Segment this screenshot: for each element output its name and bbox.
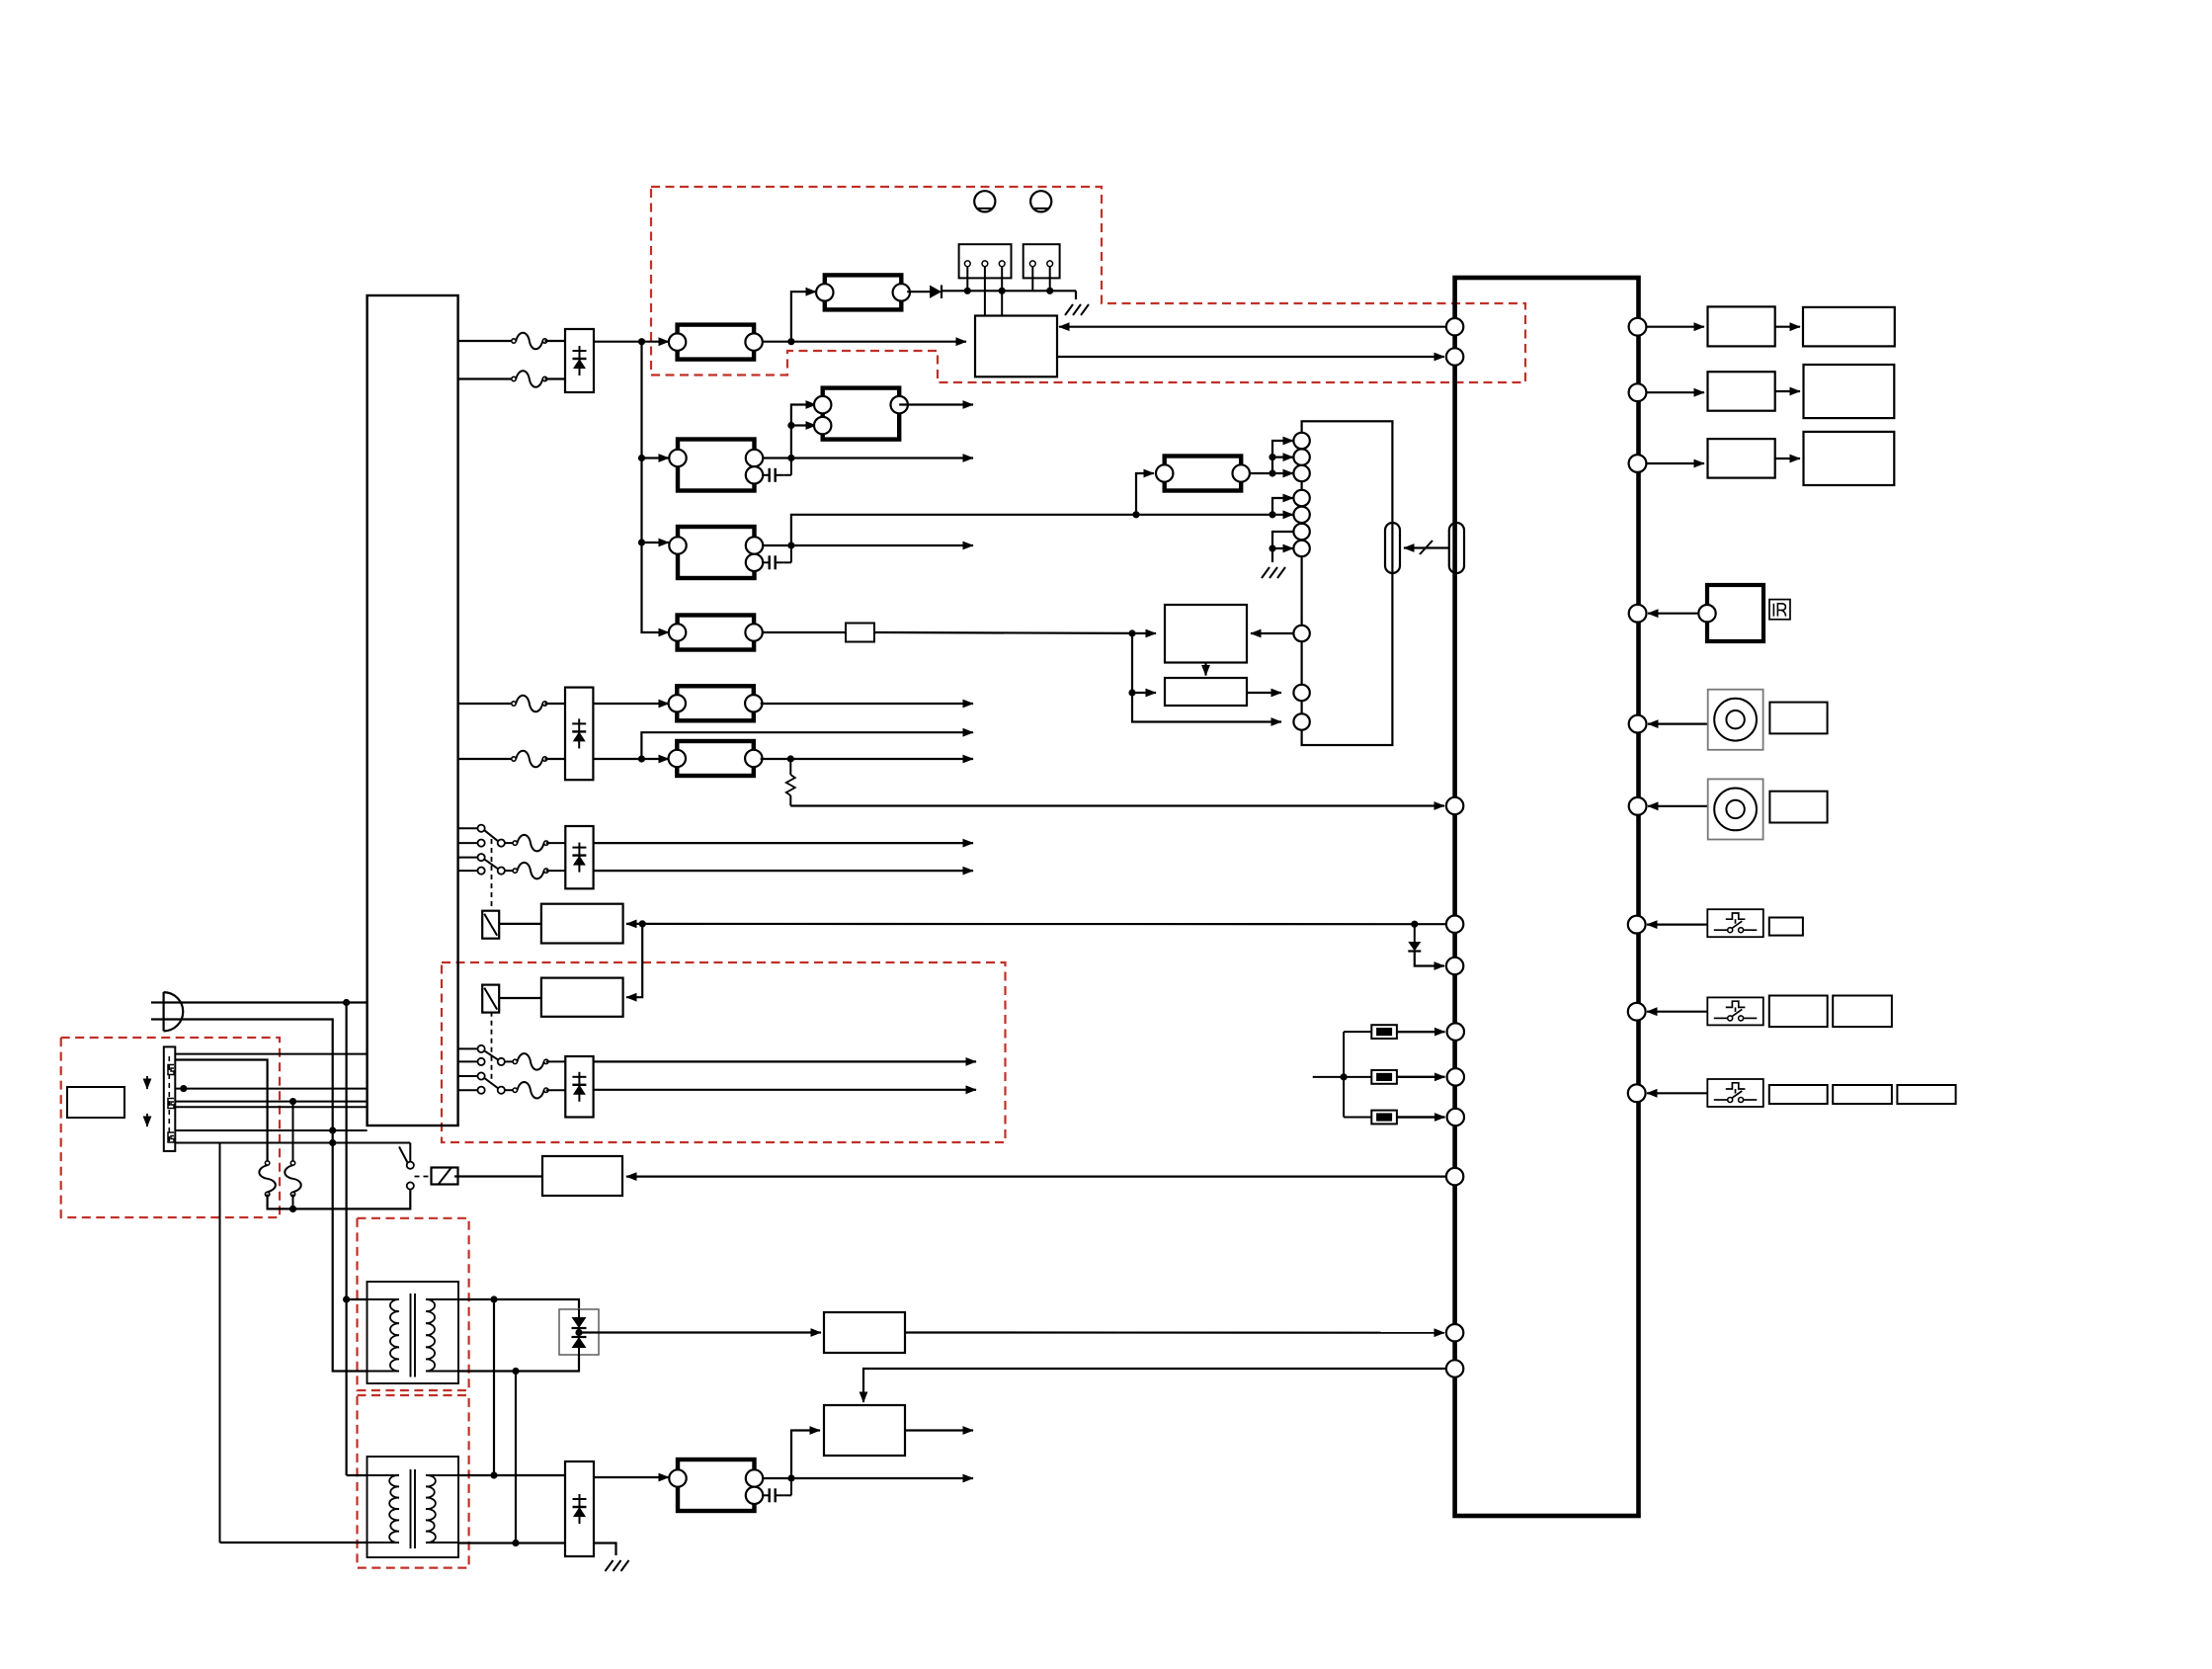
- board-to-board connector CN202: [1385, 523, 1400, 573]
- line filter FL102: [816, 275, 910, 309]
- line filter FL106: [669, 616, 763, 650]
- wire: mute block output: [905, 1429, 973, 1431]
- wire: row6 aux out: [641, 732, 973, 759]
- diode D105: [1408, 924, 1444, 965]
- wire: R101 to system control: [874, 629, 1156, 636]
- pin circle: IC in sw3: [1628, 1084, 1646, 1102]
- wire: fuse F102 to bridge D101: [545, 377, 566, 379]
- capacitor C103: [763, 459, 791, 482]
- transformer T901: [368, 1282, 459, 1383]
- fuse F106: [505, 863, 565, 879]
- power control block: [542, 1156, 622, 1196]
- wire: D106 out B: [594, 1089, 976, 1091]
- wire: ribbon bus with width slash: [1404, 541, 1449, 554]
- pin circle: IC in IR: [1629, 605, 1647, 623]
- wire: main board AC out row1 bottom: [458, 377, 512, 379]
- bridge rectifier D902 (bottom): [565, 1461, 594, 1556]
- diode D102: [907, 286, 942, 298]
- ground (top connectors): [1065, 304, 1089, 315]
- wire: syscon to reset block: [1128, 633, 1156, 697]
- driver block A2: [1708, 372, 1775, 411]
- IR receiver unit: [1698, 585, 1790, 641]
- pin circle: main IC out B: [1446, 348, 1463, 365]
- wire: panel pins 6-7 ground bus: [1269, 532, 1293, 562]
- fuse F902: [285, 1161, 301, 1197]
- wire: fuse F101 to bridge D101: [545, 340, 566, 342]
- wire: main IC to heater block: [626, 920, 1446, 928]
- voltage label box: [67, 1087, 124, 1118]
- wire: reset out to panel pin9: [1247, 692, 1281, 694]
- wire: IR sensor to IC: [1648, 613, 1699, 615]
- speaker unit 1: [1708, 690, 1828, 750]
- wire: speaker1 to IC: [1648, 722, 1708, 724]
- wire: D103 to FL109: [594, 703, 669, 705]
- wire: CN101 pin1 lead: [966, 267, 968, 292]
- wire: A3 to B3: [1775, 458, 1800, 459]
- pin circle: IC in key1: [1629, 715, 1647, 733]
- fuse F105: [505, 835, 565, 852]
- heater control block 2: [541, 978, 623, 1017]
- pin circle: main IC in A: [1446, 318, 1463, 335]
- display block B2: [1804, 365, 1895, 418]
- wire: A2 to B2: [1775, 390, 1800, 392]
- wire: main IC to power control block: [626, 1175, 1446, 1177]
- pin circle: main IC sense: [1446, 797, 1463, 814]
- bridge rectifier D103: [565, 688, 593, 781]
- pushbutton switch unit 2: [1707, 996, 1892, 1028]
- wire: board out row5: [458, 703, 512, 705]
- pin circle: main IC relay drive: [1446, 916, 1463, 933]
- wire: FL107 to panel pins: [1250, 441, 1293, 477]
- wire: mute block input: [791, 1431, 820, 1479]
- dashed outline: switched AC outlet block (middle): [442, 962, 1006, 1142]
- pin circle: IC out row2: [1629, 383, 1647, 401]
- wire: D902 ground leg: [594, 1544, 616, 1556]
- wire: T902 secondary top to bridge D902: [458, 1471, 565, 1478]
- ground (bottom): [606, 1560, 629, 1571]
- line filter FL105: [814, 388, 908, 440]
- wire: selector line 4 to main board / fuse F902: [175, 1098, 367, 1163]
- wire: bus up to FL107: [1136, 473, 1154, 515]
- wire: CN101 pin3 lead: [1001, 267, 1003, 316]
- line filter FL109: [669, 686, 763, 720]
- wire: FL104 out: [763, 542, 973, 548]
- AC outlet switch S102: [458, 1045, 505, 1094]
- mech link RY102-S102: [491, 1012, 493, 1082]
- wire: FL104 to front panel bus: [791, 511, 1276, 545]
- transformer T902: [368, 1457, 459, 1557]
- wire: FL103 to FL105 feed: [787, 405, 816, 459]
- wire: bus to panel pins 4-5: [1272, 498, 1293, 515]
- wire: D101 output to FL101: [594, 338, 669, 345]
- bridge rectifier D104: [565, 826, 593, 888]
- fuse F901: [259, 1161, 276, 1197]
- pin circle: IC in sw1: [1628, 916, 1646, 934]
- wire: D102 to connectors: [942, 288, 1076, 299]
- wire: selector line 1 to main board: [175, 1053, 367, 1055]
- wire: F104 to D103: [545, 758, 566, 760]
- wire: T902 primary bottom: [220, 1542, 368, 1544]
- wire: AC line neutral (plug to selector bus): [164, 1020, 368, 1372]
- main board block (left): [368, 295, 458, 1126]
- wire: FL109 out: [761, 703, 973, 705]
- wire: T901 primary top: [343, 1295, 368, 1302]
- wire: RY101 to heater block: [499, 923, 541, 925]
- wire: D106 out A: [594, 1060, 976, 1062]
- pin circle: main IC audio in: [1446, 1324, 1463, 1341]
- panel connector pins CN201: [1293, 433, 1309, 730]
- fuse F103: [512, 696, 547, 712]
- fuse F108: [505, 1082, 565, 1099]
- line filter FL107: [1156, 457, 1250, 491]
- display block B3: [1804, 432, 1895, 485]
- regulator IC101: [975, 316, 1057, 377]
- heater control block: [541, 904, 623, 944]
- wire: heater chain down: [626, 924, 642, 997]
- wire: CN101 pin2 lead: [984, 267, 986, 316]
- wire: T902 secondary bottom to bridge D902: [458, 1540, 565, 1546]
- wire: D104 out B: [594, 870, 973, 872]
- wire: fuse returns to power switch: [268, 1190, 411, 1213]
- capacitor C908: [763, 1478, 791, 1502]
- wire: D103 to FL110: [594, 755, 669, 762]
- relay RY101: [482, 911, 499, 939]
- wire: row1 to driver: [1646, 326, 1704, 328]
- pushbutton switch unit 3: [1707, 1079, 1955, 1107]
- fuse F104: [512, 751, 547, 768]
- fusible resistor R101: [763, 624, 874, 642]
- wire: relay RY903 to power control block: [454, 1175, 542, 1177]
- wire: regulator to main IC pin: [905, 1331, 1444, 1333]
- wire: IC101 to main IC: [1057, 356, 1444, 358]
- fuse F102: [512, 371, 547, 387]
- wire: FL105 out: [899, 403, 973, 405]
- wire: board out row6: [458, 758, 512, 760]
- fuse F107: [505, 1053, 565, 1070]
- pin circle: IC in sw2: [1628, 1003, 1646, 1021]
- wire: T901 secondary top to rectifier D901: [458, 1295, 579, 1309]
- fuse F101: [512, 333, 547, 350]
- voltage selector S901 strip: [164, 1046, 176, 1151]
- connector CN101: [959, 244, 1012, 278]
- wire: T902 primary top: [347, 1474, 368, 1476]
- wire: row3 to driver: [1646, 462, 1704, 464]
- wire: AC hot vertical feed to transformers: [346, 1003, 348, 1476]
- power switch S902: [399, 1143, 414, 1190]
- fusible links PS101-103: [1313, 1025, 1445, 1124]
- line filter FL104: [669, 527, 763, 578]
- wire: pushbutton3 to IC: [1647, 1092, 1707, 1094]
- indicator jack J101: [974, 191, 995, 211]
- indicator jack J102: [1030, 191, 1051, 211]
- dashed outline: transformer T901 block: [358, 1218, 469, 1390]
- wire: CN102 pin1 lead: [1031, 267, 1033, 292]
- speaker unit 2: [1708, 779, 1828, 839]
- pin circle: main IC power ctl: [1446, 1168, 1463, 1185]
- mech link S101-RY101: [491, 839, 493, 911]
- main IC block U1 (right): [1455, 278, 1639, 1516]
- wire: switch-relay mechanical link: [415, 1176, 433, 1178]
- wire: selector line 6 to AC bus: [175, 1127, 367, 1133]
- line filter FL110: [669, 741, 763, 776]
- wire: main IC to IC101 (feedback): [1059, 326, 1446, 328]
- dashed outline: AC input / voltage selector block: [61, 1038, 280, 1217]
- bridge rectifier D101: [565, 329, 594, 392]
- wire: D104 out A: [594, 842, 973, 844]
- dual rectifier D901: [559, 1309, 599, 1355]
- wire: A1 to B1: [1775, 326, 1800, 328]
- reset block: [1165, 678, 1247, 706]
- wire: selector line 7 to power switch: [175, 1139, 410, 1543]
- wire: main board AC out row1 top: [458, 340, 512, 342]
- wire: R102 to main IC: [790, 804, 1444, 806]
- wire: T901 secondary bottom: [458, 1368, 520, 1544]
- system control block: [1165, 605, 1247, 663]
- line filter FL908: [669, 1460, 763, 1511]
- relay RY102: [482, 985, 499, 1013]
- voltage selector key contacts: [168, 1065, 174, 1143]
- capacitor C104: [763, 545, 791, 569]
- wire: D901 bottom return: [516, 1355, 579, 1372]
- wire: syscon to reset arrow: [1204, 663, 1206, 676]
- pin circle: main IC audio mute: [1446, 1360, 1463, 1377]
- voltage changeover switch S101: [458, 825, 505, 875]
- bridge rectifier D106: [565, 1056, 593, 1118]
- dashed outline: power block (top): [651, 187, 1525, 382]
- voltage regulator block (bottom): [824, 1312, 905, 1353]
- wire: pushbutton2 to IC: [1647, 1011, 1707, 1013]
- line filter FL103: [669, 440, 763, 491]
- wire: bus tap to FL104: [638, 539, 669, 545]
- wire: F103 to D103: [545, 703, 566, 705]
- board-to-board connector CN203: [1449, 523, 1464, 573]
- wire: speaker2 to IC: [1648, 805, 1708, 807]
- driver block A3: [1708, 439, 1775, 478]
- display block B1: [1803, 307, 1895, 347]
- wire: FL103 out: [763, 455, 973, 461]
- pin circles: main IC power inputs: [1447, 1023, 1464, 1126]
- front panel connector block (tall thin): [1302, 421, 1393, 745]
- wire: down tap to panel pin10: [1132, 693, 1281, 722]
- resistor R102: [786, 759, 795, 806]
- wire: FL101 to regulator IC101: [763, 338, 966, 345]
- wire: AC line hot (plug to main board): [164, 999, 368, 1006]
- wire: selector line 3 to main board: [175, 1085, 367, 1092]
- wire: CN102 pin2 lead: [1049, 267, 1051, 292]
- wire: RY102 to block2: [499, 997, 541, 999]
- pin circle: main IC diode return: [1446, 958, 1463, 974]
- wire: D902 to line filter FL908: [594, 1476, 669, 1478]
- wire: main IC to mute block: [863, 1369, 1446, 1402]
- pin circle: IC in key2: [1629, 797, 1647, 815]
- ground (panel pins): [1262, 567, 1285, 578]
- relay RY903: [432, 1168, 458, 1185]
- wire: T901-T902 secondary tie: [493, 1299, 495, 1475]
- wire: row2 to driver: [1646, 391, 1704, 393]
- wire: rectified bus down: [642, 342, 670, 632]
- wire: selector line 2 to fuse F901: [175, 1060, 267, 1164]
- line filter FL101: [669, 325, 763, 360]
- wire: pushbutton1 to IC: [1647, 923, 1707, 925]
- AC plug P1: [151, 992, 183, 1031]
- wire: panel pin8 to syscon: [1251, 632, 1293, 634]
- connector CN102: [1024, 244, 1060, 278]
- pin circle: IC out row3: [1629, 455, 1647, 472]
- dashed outline: transformer T902 block: [358, 1395, 469, 1568]
- mute block (bottom): [824, 1405, 905, 1456]
- wire: FL110 out: [761, 755, 973, 762]
- pin circle: IC out row1: [1629, 318, 1647, 336]
- wire: selector line 5 to main board: [175, 1106, 367, 1108]
- wire: D901 output to regulator block: [575, 1329, 821, 1336]
- wire: bus tap to FL103: [638, 455, 669, 461]
- pushbutton switch unit 1: [1707, 909, 1803, 937]
- wire: branch to FL102: [791, 292, 816, 342]
- wire: FL908 output: [763, 1474, 973, 1481]
- driver block A1: [1708, 306, 1775, 346]
- selector arrow marks: [146, 1076, 148, 1127]
